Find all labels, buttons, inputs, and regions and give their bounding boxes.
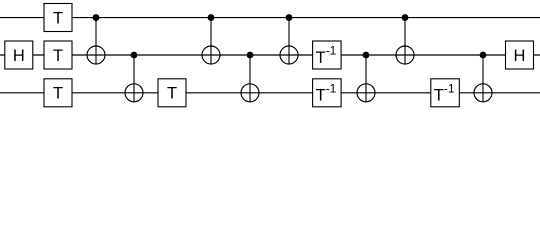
T gate q2 (first) [44, 79, 72, 107]
CNOT control q1 target q2 at x=250 [241, 52, 259, 102]
svg-text:T: T [53, 47, 63, 65]
H gate q1 (left) [5, 41, 33, 69]
svg-text:H: H [514, 47, 526, 65]
CNOT control q1 target q2 at x=483 [474, 52, 492, 102]
CNOT control q0 target q1 at x=289 [280, 14, 298, 64]
CNOT control q1 target q2 at x=134 [125, 52, 143, 102]
svg-text:H: H [13, 47, 25, 65]
wire q1 [0, 54, 540, 56]
svg-text:T: T [53, 85, 63, 103]
H gate q1 (right) [506, 41, 534, 69]
wire q0 [0, 17, 540, 19]
CNOT control q0 target q1 at x=96 [87, 14, 105, 64]
T-inverse gate q1 [313, 41, 342, 69]
wire q2 [0, 92, 540, 94]
svg-text:T: T [167, 85, 177, 103]
T gate q1 [44, 41, 72, 69]
T-inverse gate q2 (second) [431, 79, 460, 107]
T-inverse gate q2 (first) [313, 79, 342, 107]
svg-text:T: T [53, 9, 63, 27]
T gate q2 (second) [158, 79, 186, 107]
CNOT control q1 target q2 at x=366 [357, 52, 375, 102]
CNOT control q0 target q1 at x=211 [202, 14, 220, 64]
T gate q0 [44, 4, 72, 32]
CNOT control q0 target q1 at x=405 [396, 14, 414, 64]
